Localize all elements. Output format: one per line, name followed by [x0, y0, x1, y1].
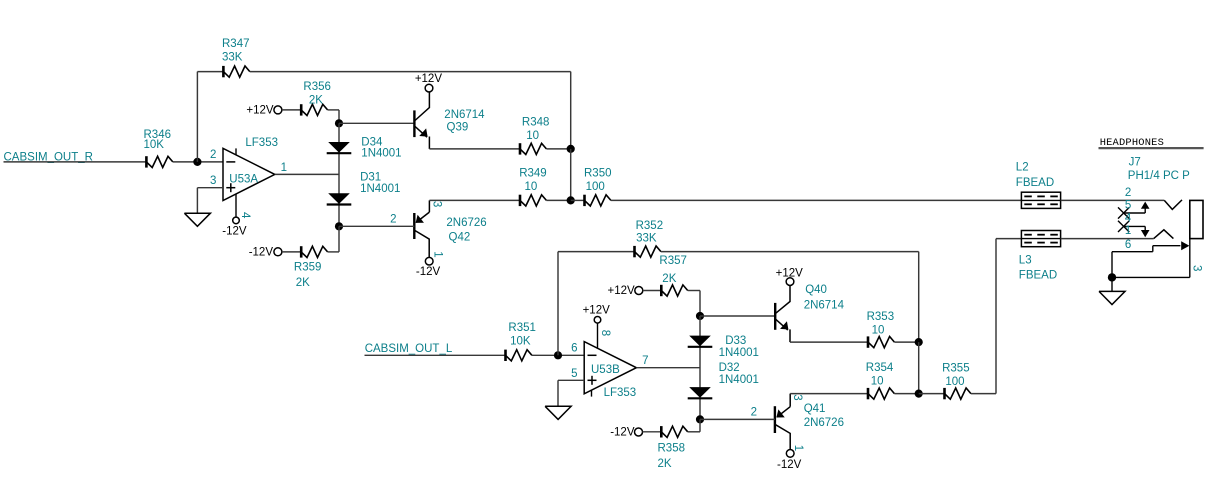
wire junction to R355 [919, 393, 945, 395]
svg-text:R356: R356 [303, 81, 331, 93]
label J7 value [1128, 157, 1190, 183]
pin 2 label [210, 149, 216, 161]
pin 8 stub U53B [594, 317, 601, 348]
resistor R350 [585, 195, 611, 206]
svg-text:FBEAD: FBEAD [1016, 177, 1054, 189]
node CABSIM_OUT_R net name [4, 151, 93, 163]
label R354 value [866, 362, 894, 388]
svg-text:6: 6 [571, 343, 577, 355]
wire R353 to junction [894, 341, 918, 343]
wire CABSIM_OUT_L input [365, 354, 506, 356]
svg-text:2N6726: 2N6726 [804, 417, 844, 429]
wire op-amp pin5 [558, 380, 584, 406]
svg-text:10: 10 [871, 376, 884, 388]
svg-text:3: 3 [1190, 265, 1202, 271]
svg-text:L3: L3 [1019, 255, 1032, 267]
node CABSIM_OUT_L net name [365, 343, 453, 355]
wire R350 to L2 [611, 199, 1022, 201]
label R351 value [508, 322, 536, 347]
label R350 value [584, 168, 612, 193]
svg-text:2N6714: 2N6714 [804, 299, 845, 311]
svg-text:D31: D31 [360, 172, 381, 184]
ground under U53A [184, 213, 210, 226]
label L2 value [1016, 162, 1054, 189]
svg-text:1: 1 [792, 445, 804, 451]
wire R351 to op-amp pin6 [532, 354, 584, 356]
pin 2 label J7 [1125, 187, 1131, 199]
pin 3 label J7 [1190, 265, 1202, 271]
power -12V R358 [610, 427, 642, 439]
wire R357 to base node [688, 291, 700, 317]
diode D34 [327, 142, 352, 153]
resistor R353 [868, 336, 894, 347]
label L3 value [1019, 255, 1057, 282]
svg-text:PH1/4 PC P: PH1/4 PC P [1128, 170, 1190, 182]
wire diode chain [338, 123, 340, 226]
svg-text:LF353: LF353 [604, 387, 637, 399]
node jack ground junction [1108, 273, 1116, 281]
label U53B [591, 364, 620, 376]
svg-text:Q41: Q41 [804, 403, 826, 415]
label R353 value [867, 311, 895, 336]
svg-text:U53B: U53B [591, 364, 620, 376]
svg-text:+12V: +12V [608, 285, 636, 297]
svg-text:33K: 33K [636, 233, 657, 245]
svg-text:3: 3 [431, 201, 443, 207]
pin 1 label [281, 162, 287, 174]
pin 1 label Q41 [792, 445, 804, 451]
svg-text:D32: D32 [719, 362, 740, 374]
svg-text:R350: R350 [584, 168, 612, 180]
pin 2 label Q42 [390, 214, 396, 226]
label Q40 value [804, 284, 845, 311]
node Q39 base junction [335, 119, 343, 127]
wire L3 to jack ring [1061, 238, 1154, 240]
svg-text:+12V: +12V [415, 73, 443, 85]
label R356 value [303, 81, 331, 106]
svg-text:R349: R349 [519, 168, 547, 180]
resistor R348 [520, 143, 546, 154]
pin 3 label Q42 [431, 201, 443, 207]
label R349 value [519, 168, 547, 193]
svg-text:+12V: +12V [776, 267, 804, 279]
label D34 value [361, 136, 401, 159]
terminal +12V Q39 collector [415, 73, 443, 92]
inductor L2 FBEAD [1021, 192, 1060, 208]
pin 5 label [571, 368, 577, 380]
svg-text:Q42: Q42 [449, 231, 471, 243]
label -12V pin4 [222, 225, 247, 237]
label R357 value [659, 255, 687, 285]
wire op-amp pin3 [197, 188, 223, 214]
label LF353 A [245, 137, 278, 149]
pin 3 label [210, 175, 216, 187]
connector J7 jack body [1190, 200, 1203, 238]
node input junction [193, 158, 201, 166]
wire op-amp B output [636, 367, 700, 369]
pin 1 label J7 [1125, 225, 1131, 237]
wire sleeve to ground [1111, 252, 1113, 278]
svg-text:+12V: +12V [583, 304, 611, 316]
pin 6 label [571, 343, 577, 355]
wire -12V to R358 [643, 431, 662, 433]
svg-text:R351: R351 [508, 322, 536, 334]
wire junction vertical [570, 149, 572, 201]
svg-text:2K: 2K [309, 94, 323, 106]
svg-text:2N6726: 2N6726 [446, 217, 486, 229]
label R352 value [636, 220, 664, 244]
resistor R359 [301, 246, 327, 257]
diode D32 [688, 387, 713, 398]
wire R354 to junction [894, 393, 918, 395]
jack tip contact [1164, 200, 1182, 210]
svg-text:2K: 2K [296, 277, 310, 289]
svg-text:1: 1 [1125, 225, 1131, 237]
node input junction L [554, 351, 562, 359]
ground under U53B [545, 406, 571, 419]
diode D31 [327, 193, 352, 204]
wire Q40 base [700, 315, 775, 317]
svg-text:R353: R353 [867, 311, 895, 323]
resistor R351 [506, 350, 532, 361]
svg-text:R358: R358 [658, 442, 686, 454]
svg-text:FBEAD: FBEAD [1019, 269, 1057, 281]
terminal +12V Q40 collector [776, 267, 804, 285]
label LF353 B [604, 387, 637, 399]
svg-text:100: 100 [945, 376, 964, 388]
svg-text:-12V: -12V [777, 459, 802, 471]
svg-text:2: 2 [390, 214, 396, 226]
svg-text:3: 3 [210, 175, 216, 187]
power -12V R359 [249, 246, 282, 258]
resistor R346 [146, 156, 172, 167]
wire R358 to junction [688, 419, 700, 431]
svg-text:R347: R347 [222, 38, 250, 50]
svg-text:+12V: +12V [246, 105, 274, 117]
label D33 value [719, 335, 759, 359]
pin 4 label J7 [1125, 213, 1132, 225]
svg-text:1N4001: 1N4001 [719, 374, 759, 386]
resistor R352 [635, 246, 661, 257]
power +12V pin8 [583, 304, 611, 316]
label D31 value [360, 172, 400, 195]
svg-text:100: 100 [586, 181, 605, 193]
svg-text:U53A: U53A [229, 173, 258, 185]
svg-text:8: 8 [599, 330, 611, 336]
svg-text:1N4001: 1N4001 [719, 347, 759, 359]
node diode bottom junction L [696, 415, 704, 423]
svg-text:-12V: -12V [610, 427, 635, 439]
label D32 value [719, 362, 759, 386]
resistor R349 [520, 195, 546, 206]
svg-text:33K: 33K [222, 52, 243, 64]
pin 3 label Q41 [791, 394, 803, 400]
wire R346 to op-amp pin2 [173, 161, 223, 163]
wire Q39 base [339, 122, 414, 124]
svg-text:R352: R352 [636, 220, 664, 232]
svg-text:10: 10 [872, 324, 885, 336]
title HEADPHONES [1099, 137, 1204, 149]
pin 7 label [642, 355, 648, 367]
wire CABSIM_OUT_R input [4, 161, 147, 163]
svg-text:2: 2 [210, 149, 216, 161]
svg-text:-12V: -12V [222, 225, 247, 237]
node R354 junction [915, 390, 923, 398]
pin 8 label [599, 330, 611, 336]
resistor R354 [868, 388, 894, 399]
jack switch 4 break contact [1118, 221, 1150, 237]
svg-text:1: 1 [431, 251, 443, 257]
power +12V R357 [608, 285, 643, 297]
ground at jack [1099, 277, 1125, 304]
svg-text:R359: R359 [294, 262, 322, 274]
wire R356 to base node [328, 110, 339, 123]
resistor R357 [661, 285, 687, 296]
transistor Q41 [775, 394, 790, 450]
label R359 value [294, 262, 322, 289]
svg-text:4: 4 [1125, 213, 1132, 225]
transistor Q39 [414, 92, 429, 149]
node R353 junction [915, 338, 923, 346]
svg-text:1N4001: 1N4001 [361, 148, 401, 160]
jack switch 5 break contact [1118, 202, 1150, 219]
wire R352 rail right [661, 252, 919, 343]
wire junction to R350 [571, 199, 585, 201]
svg-text:5: 5 [571, 368, 577, 380]
svg-text:R354: R354 [866, 362, 894, 374]
svg-text:7: 7 [642, 355, 648, 367]
label Q42 value [446, 217, 486, 244]
svg-text:1: 1 [281, 162, 287, 174]
svg-text:R355: R355 [942, 362, 970, 374]
jack ring contact [1154, 230, 1174, 239]
svg-text:J7: J7 [1129, 157, 1141, 169]
node R348 junction [567, 145, 575, 153]
svg-text:-12V: -12V [416, 266, 441, 278]
jack sleeve contact [1112, 241, 1189, 252]
wire Q39 emitter to R348 [429, 148, 520, 150]
svg-text:D33: D33 [725, 335, 746, 347]
wire R359 to junction [328, 226, 339, 252]
wire L2 to jack tip [1061, 199, 1165, 201]
label Q41 value [804, 403, 844, 429]
wire R348 to junction [546, 148, 570, 150]
wire Q42 emitter to R349 [429, 199, 520, 201]
svg-text:2: 2 [751, 406, 757, 418]
svg-text:10K: 10K [510, 335, 531, 347]
pin 4 stub U53A [233, 194, 240, 224]
node Q40 base junction [696, 312, 704, 320]
svg-text:10: 10 [525, 181, 538, 193]
svg-text:1N4001: 1N4001 [360, 183, 400, 195]
label U53A [229, 173, 258, 185]
label R346 value [144, 129, 172, 151]
wire junction up to R352 rail [557, 252, 559, 356]
wire R352 rail left [558, 251, 635, 253]
wire Q41 emitter to R354 [790, 393, 868, 395]
pin 2 label Q41 [751, 406, 757, 418]
terminal -12V Q41 collector [777, 450, 802, 471]
svg-text:Q40: Q40 [805, 284, 827, 296]
svg-text:2N6714: 2N6714 [444, 109, 485, 121]
node R349 junction [567, 196, 575, 204]
wire +12V to R357 [643, 290, 662, 292]
svg-text:2K: 2K [658, 458, 672, 470]
pin 6 label J7 [1125, 239, 1131, 251]
pin 1 label Q42 [431, 251, 443, 257]
wire diode chain L [699, 316, 701, 419]
wire R349 to junction [546, 199, 570, 201]
transistor Q40 [775, 286, 790, 342]
inductor L3 FBEAD [1021, 231, 1060, 247]
wire pin3 to ground [1112, 239, 1190, 278]
svg-text:2K: 2K [662, 273, 676, 285]
svg-text:R348: R348 [522, 116, 550, 128]
wire op-amp A output [275, 173, 339, 175]
wire feedback rail right [250, 72, 571, 149]
svg-text:2: 2 [1125, 187, 1131, 199]
svg-text:-12V: -12V [249, 246, 274, 258]
label R355 value [942, 362, 970, 388]
node diode bottom junction [335, 222, 343, 230]
svg-text:LF353: LF353 [245, 137, 278, 149]
wire feedback rail left [197, 71, 223, 73]
svg-text:10: 10 [526, 130, 539, 142]
svg-text:R357: R357 [659, 255, 687, 267]
wire Q40 emitter to R353 [790, 341, 868, 343]
svg-text:Q39: Q39 [447, 121, 469, 133]
resistor R347 [223, 66, 249, 77]
svg-text:3: 3 [791, 394, 803, 400]
label R347 value [222, 38, 250, 63]
wire +12V to R356 [282, 109, 301, 111]
wire junction up to feedback [196, 72, 198, 162]
svg-text:D34: D34 [361, 136, 383, 148]
svg-text:6: 6 [1125, 239, 1131, 251]
diode D33 [688, 336, 713, 347]
svg-text:CABSIM_OUT_L: CABSIM_OUT_L [365, 343, 453, 355]
label Q39 value [444, 109, 485, 133]
terminal -12V Q42 collector [416, 257, 441, 277]
op-amp U53B [584, 342, 636, 397]
transistor Q42 [414, 200, 429, 257]
pin 4 label [239, 212, 251, 219]
op-amp U53A [223, 148, 275, 200]
wire Q41 base [700, 418, 775, 420]
svg-text:L2: L2 [1016, 162, 1029, 174]
pin 5 label J7 [1125, 200, 1131, 212]
label R358 value [658, 442, 686, 470]
resistor R356 [301, 104, 327, 115]
power +12V R356 [246, 105, 281, 117]
svg-text:10K: 10K [144, 139, 165, 151]
label R348 value [522, 116, 550, 141]
wire junction vertical L [918, 342, 920, 394]
svg-text:5: 5 [1125, 200, 1131, 212]
wire -12V to R359 [282, 251, 301, 253]
wire R355 to L3 [971, 239, 1022, 394]
svg-text:4: 4 [239, 212, 251, 219]
resistor R358 [661, 426, 687, 437]
wire Q42 base [339, 225, 414, 227]
resistor R355 [945, 388, 971, 399]
